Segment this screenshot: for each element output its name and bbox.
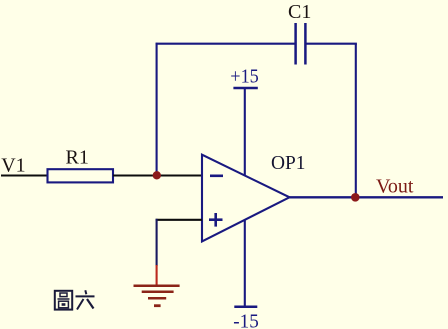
power +15 rail bar — [233, 87, 257, 90]
svg-text:OP1: OP1 — [271, 152, 306, 174]
svg-text:R1: R1 — [66, 146, 89, 168]
junction node at inverting input — [153, 171, 161, 179]
wire +15 supply to op-amp — [244, 88, 246, 176]
wire non-inverting input down to ground — [156, 219, 158, 266]
wire output — [289, 196, 443, 198]
svg-text:-15: -15 — [233, 310, 258, 329]
wire C1 to right corner — [306, 43, 357, 45]
svg-text:+15: +15 — [230, 65, 258, 87]
wire op-amp to -15 supply — [244, 220, 246, 307]
op-amp inverting input minus sign — [210, 175, 223, 178]
op-amp non-inverting input plus sign — [209, 213, 223, 227]
figure caption glyph liu — [76, 290, 95, 309]
junction node at output — [351, 193, 360, 202]
svg-text:V1: V1 — [1, 154, 25, 176]
wire feedback top to C1 — [156, 43, 295, 45]
wire input V1 to R1 — [1, 174, 47, 176]
ground symbol — [134, 286, 180, 306]
wire R1 to inverting input — [113, 174, 202, 176]
power -15 rail bar — [234, 306, 257, 309]
wire feedback vertical left — [156, 43, 158, 176]
op-amp U1 triangle — [202, 155, 290, 242]
svg-text:Vout: Vout — [376, 176, 414, 198]
capacitor C1 — [296, 23, 306, 65]
figure caption glyph tu — [55, 291, 72, 310]
wire non-inverting input horizontal — [156, 219, 202, 221]
ground stem red — [156, 265, 158, 286]
wire feedback vertical right down to output — [355, 44, 357, 198]
svg-text:C1: C1 — [288, 1, 311, 23]
resistor R1 — [48, 169, 114, 182]
